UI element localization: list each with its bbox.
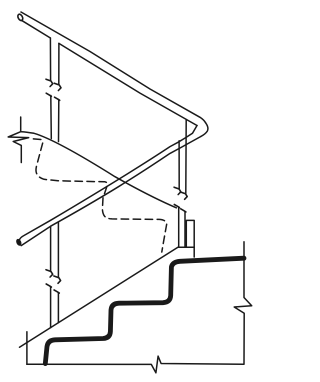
step surface line under post P2 [178, 246, 194, 248]
landing slab cut break (left) [8, 117, 29, 163]
right cut line with break [234, 242, 252, 364]
handrail inner V and B upper line [19, 126, 197, 241]
rail B end cap [16, 239, 22, 246]
post P3 lower segment [50, 287, 52, 328]
ground line with break [27, 356, 244, 373]
handrail A top line (upper flight) [21, 12, 206, 123]
handrail B lower line (from bend) [21, 137, 201, 246]
post P2 lower segment [178, 207, 180, 247]
bottom slab cut edge (left vertical) [26, 332, 28, 365]
stair nosing profile (thick) [45, 258, 244, 363]
post P1 break marks [46, 79, 53, 86]
handrail A bottom line (interrupted by post P1) [22, 20, 51, 38]
post P2 base sleeve [186, 220, 194, 257]
landing floor edge [21, 132, 176, 208]
post P1 lower segment [50, 96, 53, 139]
hidden wall rail (dashed) [33, 139, 166, 252]
handrail bend outer curve [201, 123, 208, 137]
post P2 break marks [174, 187, 181, 194]
post P3 break marks [46, 270, 53, 277]
rail A end cap [17, 13, 24, 21]
post P1 upper segment [49, 38, 51, 81]
post P3 upper segment [50, 226, 52, 271]
stair stringer rake line [20, 248, 178, 348]
post P2 upper segment [178, 141, 180, 189]
